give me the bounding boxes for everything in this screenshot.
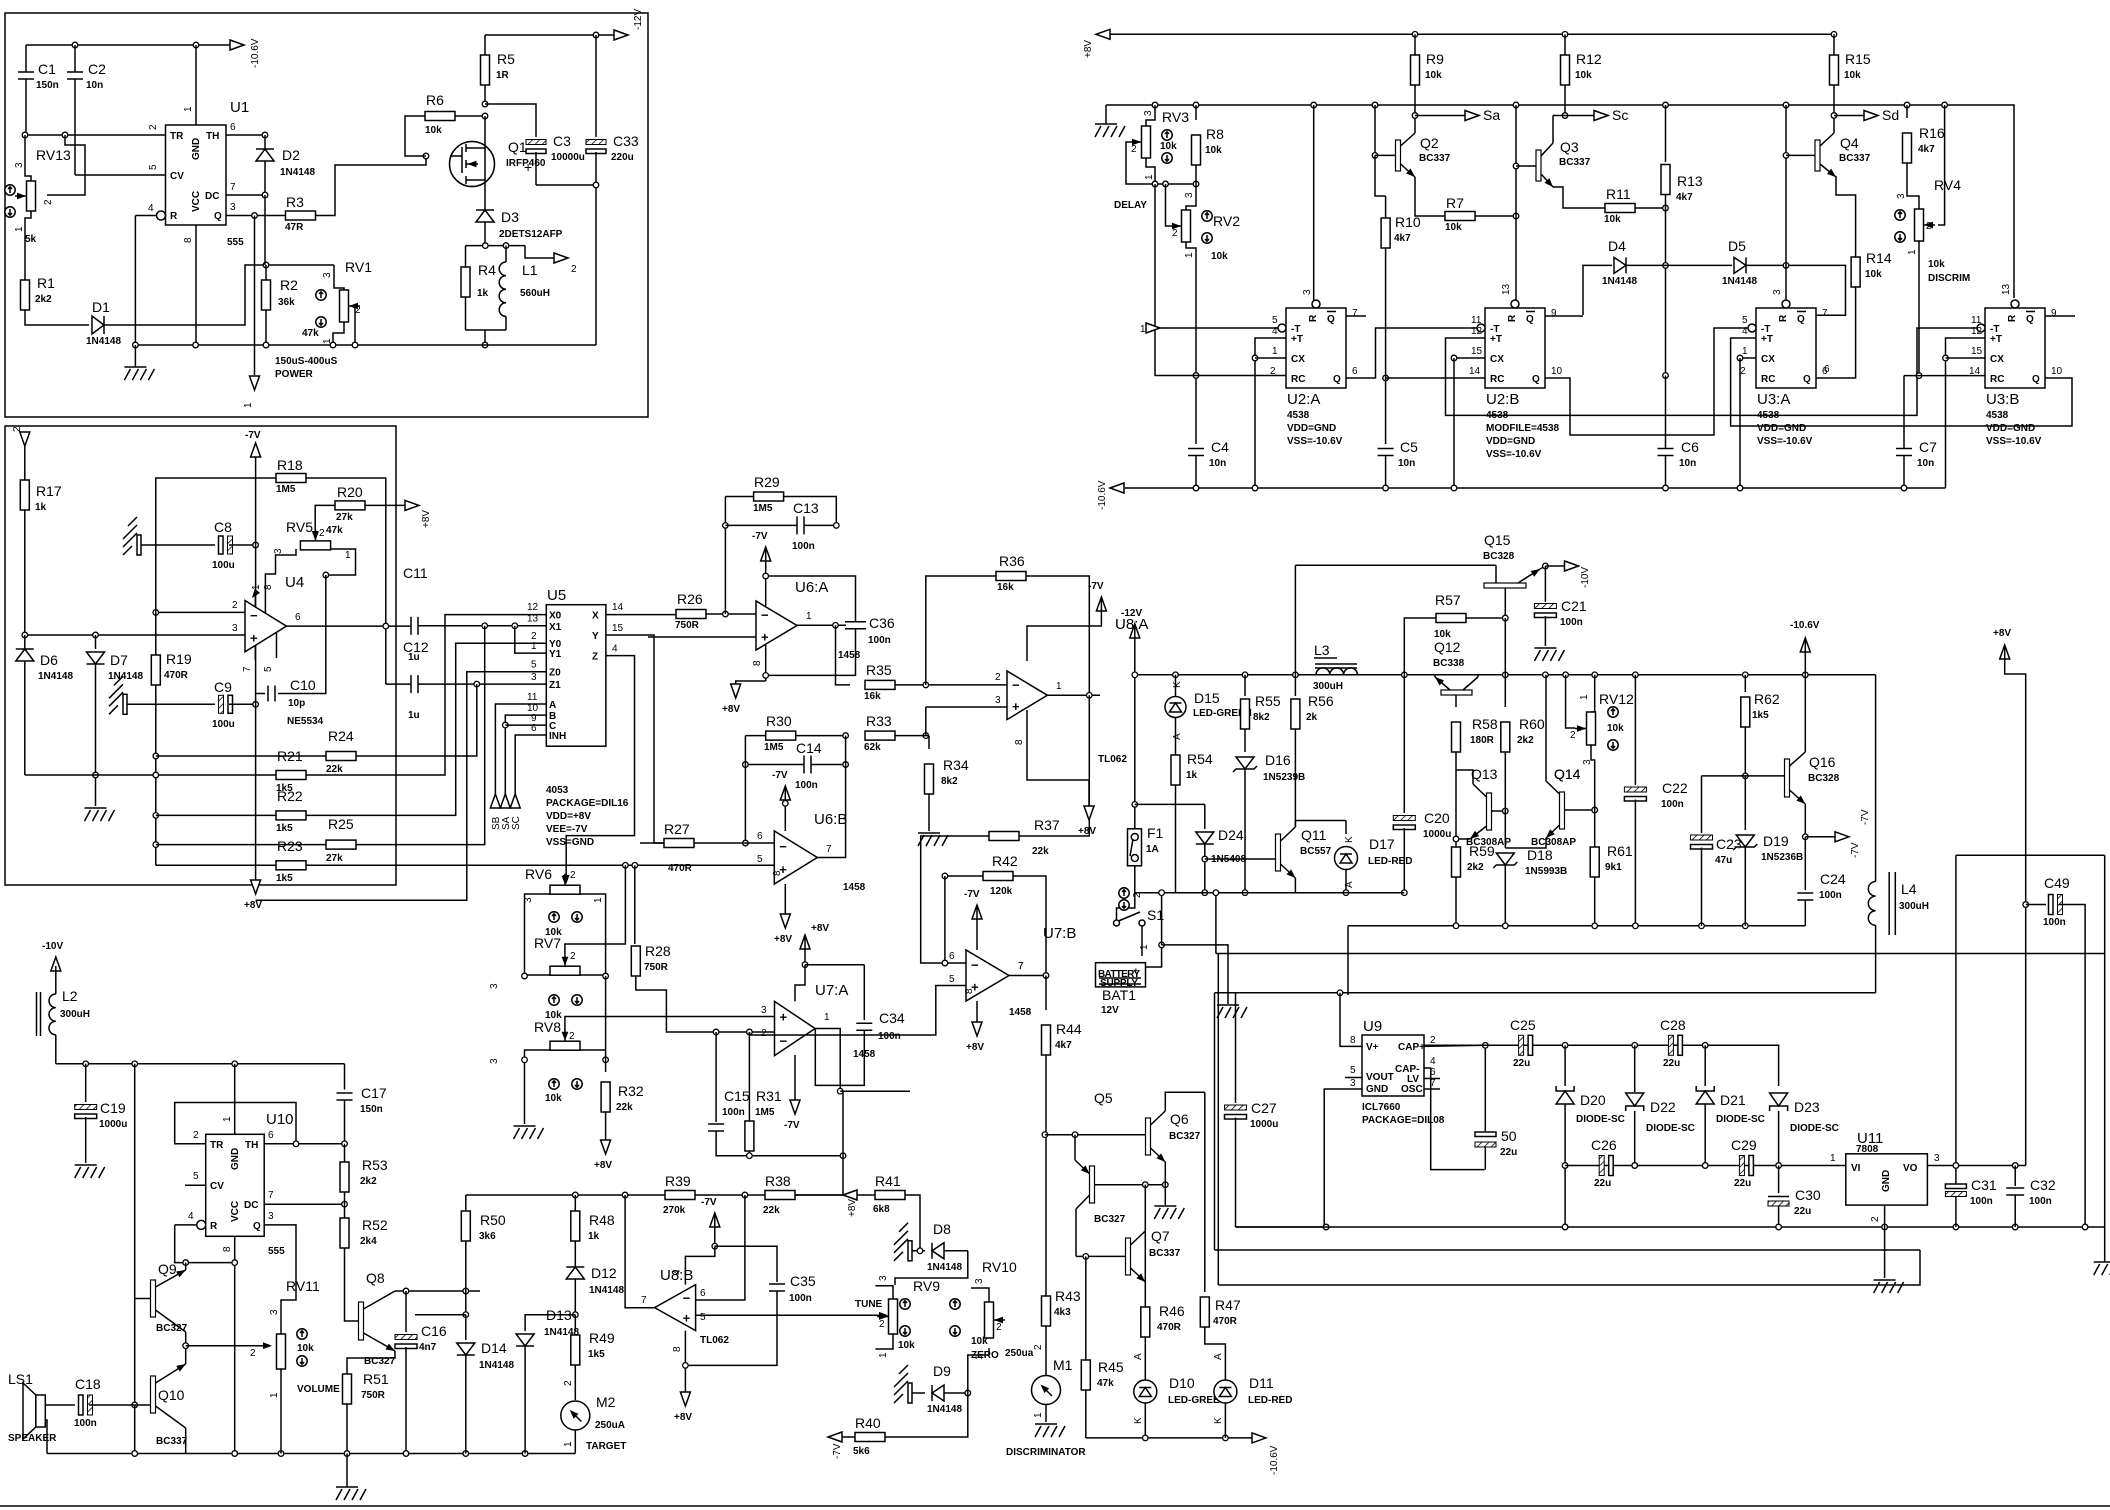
U4 pin1 stub (254, 592, 256, 607)
svg-text:47k: 47k (326, 525, 343, 536)
svg-text:10n: 10n (1209, 458, 1226, 469)
node R38/R39 mid (742, 1192, 748, 1198)
U5 INH wire to SC (515, 735, 546, 794)
IC U3:B 4538 box (1985, 308, 2045, 388)
svg-text:7: 7 (1018, 961, 1024, 972)
svg-text:3: 3 (1772, 289, 1783, 295)
capacitor C33 electrolytic (595, 35, 597, 137)
svg-text:8: 8 (672, 1346, 683, 1352)
transistor Q2 (1374, 105, 1376, 155)
svg-text:1R: 1R (496, 70, 510, 81)
svg-text:A: A (1133, 1353, 1144, 1360)
svg-text:100u: 100u (212, 560, 235, 571)
svg-text:8k2: 8k2 (941, 776, 958, 787)
svg-text:300uH: 300uH (60, 1009, 90, 1020)
wire R42 to minus leg (944, 876, 946, 963)
node rail3 D19 (1743, 923, 1749, 929)
resistor R49 (574, 1315, 576, 1332)
svg-text:R60: R60 (1519, 716, 1545, 732)
svg-text:4: 4 (672, 1269, 683, 1275)
svg-text:D17: D17 (1369, 836, 1395, 852)
node R19/R24 (153, 753, 159, 759)
resistor R46 (1141, 1307, 1150, 1337)
node X1/R25 branch (482, 623, 488, 629)
svg-text:220u: 220u (611, 152, 634, 163)
svg-text:1k: 1k (35, 502, 47, 513)
svg-text:4k7: 4k7 (1394, 233, 1411, 244)
node D16 rail2 (1242, 890, 1248, 896)
node rail2 line2 (1213, 890, 1219, 896)
switch S1 (1114, 920, 1120, 926)
svg-text:-7V: -7V (1860, 809, 1871, 825)
svg-text:TUNE: TUNE (855, 1299, 883, 1310)
svg-text:560uH: 560uH (520, 288, 550, 299)
Q10 collector down (185, 1428, 187, 1454)
wire R10/C5 vertical (1385, 196, 1387, 219)
node BAT riser (1159, 942, 1165, 948)
U7B plus wire (749, 986, 966, 1036)
svg-text:-7V: -7V (245, 430, 261, 441)
power arrow -12V (614, 30, 628, 40)
U4 pin8 to RV5 pin3 (265, 549, 296, 592)
svg-text:R28: R28 (645, 943, 671, 959)
svg-text:1: 1 (222, 1116, 233, 1122)
resistor R11 (1605, 204, 1635, 213)
resistor R29 (725, 496, 753, 498)
node B/C tie (503, 722, 509, 728)
svg-text:Sd: Sd (1882, 107, 1899, 123)
svg-text:Q10: Q10 (158, 1387, 185, 1403)
capacitor C31 (1945, 1184, 1966, 1189)
wire reset to rail (134, 216, 136, 346)
diode D20 schottky (1564, 1045, 1566, 1086)
svg-text:3: 3 (322, 272, 333, 278)
wire -10.6V rail top (26, 44, 232, 46)
svg-text:BC328: BC328 (1808, 773, 1840, 784)
svg-text:27k: 27k (326, 853, 343, 864)
node R42/minus (942, 960, 948, 966)
node rail3 D18 (1503, 923, 1509, 929)
node rail D14 (463, 1451, 469, 1457)
svg-text:U4: U4 (285, 574, 304, 591)
svg-text:1N4148: 1N4148 (927, 1262, 962, 1273)
resistor R2 (265, 265, 267, 280)
svg-text:-7V: -7V (832, 1443, 843, 1459)
svg-text:D5: D5 (1728, 238, 1746, 254)
wire RV12 wiper (1566, 675, 1575, 728)
resistor R34 (926, 735, 929, 737)
wire Z0 row (256, 672, 547, 901)
capacitor C28 (1668, 1035, 1673, 1055)
node rail U2A CX (1252, 485, 1258, 491)
svg-text:R21: R21 (277, 748, 303, 764)
svg-text:R3: R3 (286, 194, 304, 210)
svg-text:+8V: +8V (1083, 40, 1094, 58)
svg-text:7: 7 (242, 666, 253, 672)
transistor Q3 (1515, 105, 1517, 300)
svg-text:POWER: POWER (275, 369, 314, 380)
wire -10.6V led rail (1086, 1437, 1252, 1439)
svg-text:BC327: BC327 (1169, 1131, 1201, 1142)
svg-text:6: 6 (268, 1130, 274, 1141)
diode D6 (24, 635, 26, 649)
svg-text:ICL7660: ICL7660 (1362, 1102, 1401, 1113)
svg-text:1: 1 (183, 106, 194, 112)
RV8 pin3 (525, 1050, 551, 1124)
svg-text:12V: 12V (1101, 1005, 1119, 1016)
svg-text:+8V: +8V (421, 510, 432, 528)
svg-text:VO: VO (1903, 1163, 1918, 1174)
svg-text:C16: C16 (421, 1323, 447, 1339)
U2A R lead (1313, 105, 1315, 300)
RV9 pin3 bracket (875, 1286, 893, 1299)
svg-text:6k8: 6k8 (873, 1204, 890, 1215)
svg-text:15: 15 (1471, 346, 1483, 357)
svg-text:3: 3 (232, 623, 238, 634)
svg-text:BC327: BC327 (156, 1323, 188, 1334)
svg-text:2k2: 2k2 (1467, 862, 1484, 873)
svg-text:X0: X0 (549, 611, 562, 622)
node R9 top (1412, 32, 1418, 38)
ground C21 (1534, 647, 1556, 649)
svg-text:R17: R17 (36, 483, 62, 499)
wire D18 to rail3 (1504, 865, 1506, 926)
wire C16row to D14 (415, 1314, 466, 1316)
svg-text:1N4148: 1N4148 (280, 167, 315, 178)
node rail C5 (1383, 485, 1389, 491)
RV8 adjust down (572, 1079, 582, 1089)
node Sd (1831, 113, 1837, 119)
node R58/Q13 (1453, 836, 1459, 842)
svg-text:1N4148: 1N4148 (86, 336, 121, 347)
svg-text:+8V: +8V (244, 900, 262, 911)
U6B supply +8V (784, 884, 786, 914)
node C14 left (743, 762, 749, 768)
svg-text:C26: C26 (1591, 1137, 1617, 1153)
battery BAT1 (1096, 963, 1146, 987)
svg-text:1: 1 (345, 550, 351, 561)
svg-text:-10.6V: -10.6V (1097, 480, 1108, 510)
svg-text:VOUT: VOUT (1366, 1072, 1394, 1083)
svg-text:VDD=+8V: VDD=+8V (546, 811, 591, 822)
svg-text:2k2: 2k2 (360, 1176, 377, 1187)
wire BAT1 to riser (1146, 945, 1162, 967)
svg-text:R7: R7 (1446, 195, 1464, 211)
resistor R42 (945, 875, 983, 877)
capacitor C1 (25, 45, 27, 72)
svg-text:14: 14 (612, 602, 624, 613)
resistor R57 (1404, 618, 1436, 675)
transistor Q16 (1785, 759, 1790, 797)
svg-text:470R: 470R (668, 863, 693, 874)
svg-text:C12: C12 (403, 639, 429, 655)
svg-text:Q: Q (1327, 314, 1335, 325)
svg-text:R30: R30 (766, 713, 792, 729)
svg-text:R53: R53 (362, 1157, 388, 1173)
svg-text:5: 5 (263, 666, 274, 672)
ground M1 (1035, 1423, 1057, 1425)
node rail R51 (344, 1451, 350, 1457)
svg-text:1M5: 1M5 (764, 742, 784, 753)
wire R30/C14 left leg (744, 736, 746, 843)
potentiometer RV13 (27, 181, 36, 211)
svg-text:10000u: 10000u (551, 152, 585, 163)
resistor R37 (989, 832, 1019, 841)
U10 CV stub (185, 1184, 206, 1186)
svg-text:-10V: -10V (1580, 567, 1591, 588)
svg-text:K: K (1344, 836, 1355, 843)
RV7 adjust up (549, 995, 559, 1005)
svg-text:11: 11 (1971, 315, 1982, 326)
U4 pin8 stub (264, 592, 266, 613)
U2:A pin -T bubble (1278, 324, 1286, 332)
wire CV net (75, 174, 166, 176)
wire R29 feedback leg (724, 497, 726, 615)
node rail3 C23 (1699, 923, 1705, 929)
svg-text:U2:B: U2:B (1486, 391, 1519, 408)
node C13/output leg (834, 523, 840, 529)
node RV2 wiper branch (1163, 181, 1169, 187)
svg-text:U6:B: U6:B (814, 811, 847, 828)
U8B output wire (625, 1195, 655, 1308)
LS1 bottom terminal (45, 1420, 47, 1454)
svg-text:TL062: TL062 (700, 1335, 729, 1346)
transistor Q4 (1786, 154, 1815, 156)
node R33/R34 to plus (923, 733, 929, 739)
node R31 rail (747, 1153, 753, 1159)
wire +8V riser (2005, 645, 2026, 1166)
U1 pin1 lead (195, 45, 197, 125)
wire D4 D5 row (1583, 265, 1612, 315)
svg-text:10n: 10n (1679, 458, 1696, 469)
node D7 top (93, 632, 99, 638)
potentiometer RV4 (1915, 209, 1924, 241)
node collector/volume (183, 1343, 189, 1349)
node pump rail C30 (1776, 1224, 1782, 1230)
node RV13 branch (62, 132, 68, 138)
svg-text:14: 14 (1469, 366, 1481, 377)
svg-text:1A: 1A (1146, 844, 1159, 855)
power arrow -10V audio (51, 957, 61, 971)
svg-text:+T: +T (1291, 334, 1303, 345)
svg-text:1: 1 (1139, 944, 1150, 950)
svg-text:+: + (1012, 699, 1020, 714)
power arrow +8V U8B (680, 1392, 690, 1406)
svg-text:R51: R51 (363, 1371, 389, 1387)
svg-text:4k7: 4k7 (1055, 1040, 1072, 1051)
RV3 adjust down (1162, 153, 1172, 163)
IC U2:B 4538 box (1485, 308, 1545, 388)
svg-text:1: 1 (251, 584, 262, 590)
svg-text:RV3: RV3 (1162, 109, 1189, 125)
svg-text:C14: C14 (796, 740, 822, 756)
svg-text:22u: 22u (1500, 1147, 1517, 1158)
svg-text:C7: C7 (1919, 439, 1937, 455)
transistor Q6 (1146, 1118, 1151, 1155)
svg-text:Q1: Q1 (508, 139, 527, 155)
resistor R13 (1665, 105, 1667, 162)
capacitor C22 (1634, 675, 1636, 785)
svg-text:2: 2 (148, 124, 159, 130)
potentiometer RV6 (550, 885, 580, 894)
RV1 adjust up (316, 290, 326, 300)
wire R35 to U8A minus (895, 684, 1007, 686)
svg-text:3k6: 3k6 (479, 1231, 496, 1242)
svg-text:C34: C34 (879, 1010, 905, 1026)
wire RC U2B (1386, 377, 1485, 379)
U5 X output wire (606, 614, 676, 616)
node top D21 (1702, 1043, 1708, 1049)
svg-text:R: R (1778, 314, 1789, 322)
svg-text:D21: D21 (1720, 1092, 1746, 1108)
power arrow +8V R41 (843, 1190, 857, 1200)
svg-text:C8: C8 (214, 519, 232, 535)
node bus RV4 (1942, 102, 1948, 108)
ground RV chain (514, 1125, 536, 1127)
wire to bottom rail (484, 330, 486, 345)
svg-text:1: 1 (1140, 324, 1146, 335)
U9 CAP+ wire (1424, 1045, 1485, 1046)
svg-text:-7V: -7V (784, 1120, 800, 1131)
svg-text:C1: C1 (38, 61, 56, 77)
wire lineB left down (1214, 993, 1216, 1250)
svg-text:5k: 5k (25, 234, 37, 245)
svg-text:100n: 100n (878, 1031, 901, 1042)
resistor R9 (1414, 34, 1416, 55)
node rail U1 vcc (193, 342, 199, 348)
svg-text:R6: R6 (426, 92, 444, 108)
wire R18 right to output (306, 478, 386, 684)
wire D5 to U3A R line (1746, 265, 1846, 315)
resistor R61 (1590, 847, 1599, 877)
led D17 (1345, 821, 1347, 835)
wire line B (1215, 992, 1876, 994)
IC U10 555 box (206, 1134, 265, 1236)
svg-text:−: − (250, 608, 258, 623)
led D11 (1214, 1380, 1237, 1403)
wire plus input row (25, 634, 245, 636)
svg-text:1N4148: 1N4148 (1602, 276, 1637, 287)
U8A plus row (926, 706, 1007, 708)
inductor L4 with core (1888, 872, 1890, 935)
capacitor C35 (769, 1283, 785, 1285)
node Sa (1412, 113, 1418, 119)
wire Sc arrow (1553, 115, 1594, 117)
svg-text:K: K (1172, 681, 1183, 688)
wire R11 to R13 (1635, 207, 1666, 209)
wire R33 to node (895, 735, 926, 737)
node C33 top (593, 32, 599, 38)
RV6 pin3 bracket (525, 894, 551, 976)
svg-text:100n: 100n (722, 1107, 745, 1118)
diode D14 (465, 1315, 467, 1340)
diode D22 schottky (1634, 1045, 1636, 1092)
svg-text:7: 7 (268, 1190, 274, 1201)
svg-text:3: 3 (761, 1005, 767, 1016)
capacitor C16 electrolytic (405, 1291, 407, 1332)
svg-text:RV8: RV8 (534, 1019, 561, 1035)
U10 reset bubble (197, 1220, 206, 1229)
node drain/R6 (482, 113, 488, 119)
node R23/R28 branch (632, 863, 638, 869)
svg-text:120k: 120k (990, 886, 1013, 897)
RV3 adjust up (1162, 130, 1172, 140)
U7A supply +8V top (800, 935, 810, 949)
svg-text:D3: D3 (501, 209, 519, 225)
node RC U2A (1193, 373, 1199, 379)
node rail R2 (263, 342, 269, 348)
svg-text:VSS=-10.6V: VSS=-10.6V (1757, 436, 1813, 447)
U1 pin6 TH wire (226, 134, 265, 136)
svg-text:C2: C2 (88, 61, 106, 77)
svg-text:C25: C25 (1510, 1017, 1536, 1033)
node Q15 emitter (1543, 563, 1549, 569)
svg-text:3: 3 (1184, 192, 1195, 198)
diode D4 (1625, 257, 1627, 273)
svg-text:3: 3 (974, 1278, 985, 1284)
svg-text:R54: R54 (1187, 751, 1213, 767)
svg-text:C24: C24 (1820, 871, 1846, 887)
svg-text:CX: CX (1490, 354, 1504, 365)
U9 V+ wire (1340, 993, 1362, 1047)
svg-text:M1: M1 (1053, 1357, 1073, 1373)
svg-text:X: X (592, 611, 599, 622)
svg-text:Y: Y (592, 631, 599, 642)
svg-text:C33: C33 (613, 133, 639, 149)
U7B output (1009, 975, 1046, 977)
svg-text:100u: 100u (212, 719, 235, 730)
node D12/D13/R49 (573, 1312, 579, 1318)
wire rail2 (1135, 892, 1405, 894)
svg-text:3: 3 (1302, 289, 1313, 295)
node R62/Q16 base (1743, 773, 1749, 779)
power arrow +8V (1096, 29, 1110, 39)
ground D7 (95, 805, 97, 806)
svg-text:13: 13 (527, 614, 539, 625)
svg-text:C36: C36 (869, 615, 895, 631)
svg-text:2: 2 (1740, 366, 1746, 377)
svg-text:2: 2 (1131, 144, 1137, 155)
svg-text:A: A (1344, 881, 1355, 888)
svg-text:R43: R43 (1055, 1288, 1081, 1304)
transistor Q14 mirrored (1546, 781, 1560, 794)
node U8B vtop (712, 1243, 718, 1249)
svg-text:3: 3 (273, 548, 284, 554)
U3:B pin -T bubble (1977, 324, 1985, 332)
svg-text:-7V: -7V (1850, 842, 1861, 858)
capacitor C11 (410, 617, 412, 635)
svg-text:-7V: -7V (752, 531, 768, 542)
wire output 2 arrow (525, 246, 556, 258)
svg-text:C19: C19 (100, 1100, 126, 1116)
node Sc (1562, 113, 1568, 119)
U2A Qbar stub (1346, 315, 1366, 317)
svg-text:1: 1 (824, 1012, 830, 1023)
svg-text:-12V: -12V (1121, 608, 1142, 619)
svg-text:OSC: OSC (1401, 1084, 1423, 1095)
capacitor C34 (863, 965, 865, 1020)
RV7 pin1 (580, 974, 606, 976)
svg-text:PACKAGE=DIL16: PACKAGE=DIL16 (546, 798, 629, 809)
svg-text:Z1: Z1 (549, 680, 561, 691)
svg-text:100n: 100n (868, 635, 891, 646)
svg-text:C35: C35 (790, 1273, 816, 1289)
node rail3 C22 (1633, 923, 1639, 929)
RV9 pin1 bracket (875, 1334, 893, 1349)
svg-text:1N4148: 1N4148 (108, 671, 143, 682)
resistor R6 (405, 116, 426, 156)
svg-text:2k2: 2k2 (1517, 735, 1534, 746)
